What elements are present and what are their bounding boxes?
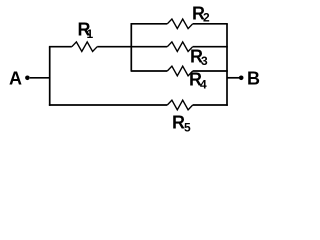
resistor R2 xyxy=(167,19,192,29)
wire top branch left (to R1) xyxy=(49,46,72,48)
svg-text:A: A xyxy=(9,69,22,89)
wire right vertical xyxy=(226,24,228,106)
wire R4 branch left xyxy=(131,70,168,72)
svg-text:3: 3 xyxy=(201,54,208,68)
wire R3 branch right xyxy=(193,46,228,48)
node B terminal dot xyxy=(239,76,244,81)
wire R2 branch left xyxy=(131,23,168,25)
wire stub to B xyxy=(227,77,239,79)
wire bottom branch right xyxy=(193,104,228,106)
svg-text:4: 4 xyxy=(200,77,207,91)
resistor R3 xyxy=(167,42,192,52)
wire R1 to R3 (middle branch through box left edge) xyxy=(97,46,167,48)
wire R2 branch right xyxy=(193,23,228,25)
wire left vertical xyxy=(49,47,51,106)
resistor R1 xyxy=(72,42,97,52)
svg-text:5: 5 xyxy=(184,121,191,135)
wire R4 branch right xyxy=(193,70,228,72)
resistor R4 xyxy=(167,66,192,76)
resistor R5 xyxy=(167,100,192,110)
node A terminal dot xyxy=(25,76,30,81)
svg-text:B: B xyxy=(247,69,260,89)
svg-text:2: 2 xyxy=(203,10,210,24)
wire A to left vertical xyxy=(30,77,51,79)
wire bottom branch left xyxy=(49,104,167,106)
wire box left edge vertical xyxy=(130,24,132,71)
svg-text:1: 1 xyxy=(87,27,94,41)
